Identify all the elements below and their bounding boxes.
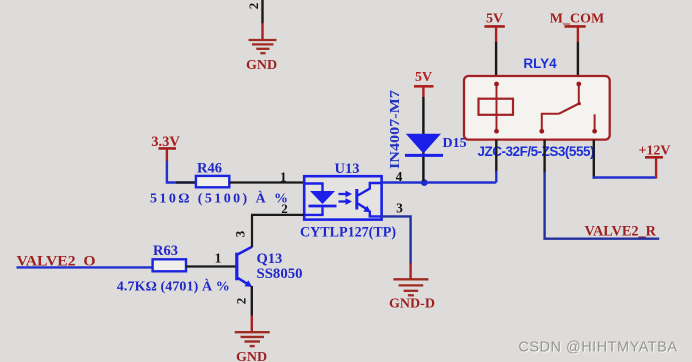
svg-text:2: 2 [246,3,261,10]
wire [495,140,497,172]
diode D15 [406,134,441,154]
power rail +12V [655,159,657,179]
svg-text:+12V: +12V [638,143,670,158]
svg-text:VALVE2_R: VALVE2_R [585,224,657,240]
U13 phototransistor [355,189,358,210]
wire [261,0,263,24]
svg-text:D15: D15 [443,136,467,151]
ground GND (bottom) [235,332,270,346]
svg-text:1: 1 [215,251,222,266]
relay switch [578,84,580,105]
svg-text:510Ω (5100) À %: 510Ω (5100) À % [150,190,288,207]
transistor Q13 [237,247,303,287]
svg-text:GND: GND [246,58,277,73]
relay RLY4 [464,56,610,159]
wire [17,266,154,268]
wire [252,215,304,248]
resistor R46 [196,176,229,187]
resistor R63 [153,259,186,271]
svg-text:IN4007-M7: IN4007-M7 [387,90,402,169]
svg-text:2: 2 [234,298,249,305]
svg-text:3: 3 [233,230,248,237]
wire [229,181,304,183]
wire [382,216,411,264]
ground GND (top) [249,40,277,53]
svg-text:R46: R46 [197,161,222,177]
wire [261,23,263,40]
svg-text:CYTLP127(TP): CYTLP127(TP) [300,225,396,241]
node junction D15/U13/relay [421,179,428,186]
U13 coupling arrows [339,193,347,195]
svg-text:3: 3 [396,201,403,216]
wire [422,97,424,181]
svg-text:2: 2 [281,201,288,216]
svg-text:5V: 5V [486,11,503,26]
svg-text:4.7KΩ (4701) À %: 4.7KΩ (4701) À % [117,277,230,294]
svg-text:5V: 5V [415,70,432,85]
svg-text:RLY4: RLY4 [523,56,557,71]
svg-text:GND: GND [236,350,267,362]
relay coil [479,99,514,115]
svg-text:1: 1 [280,169,287,184]
optocoupler U13 [300,161,396,241]
svg-text:U13: U13 [335,161,360,177]
wire [577,42,579,76]
wire [382,181,497,183]
svg-text:M_COM: M_COM [550,11,604,26]
svg-text:GND-D: GND-D [389,297,435,312]
wire [593,140,595,179]
wire [495,42,497,76]
U13 LED [305,184,323,192]
wire [543,140,545,173]
svg-text:JZC-32F/5-ZS3(555): JZC-32F/5-ZS3(555) [478,144,595,159]
svg-text:CSDN @HIHTMYATBA: CSDN @HIHTMYATBA [518,340,677,356]
wire [186,265,236,267]
ground GND-D [393,279,428,295]
wire [251,286,253,316]
svg-text:Q13: Q13 [257,251,283,267]
svg-text:R63: R63 [153,243,178,259]
wire [167,161,196,183]
svg-text:SS8050: SS8050 [257,266,303,282]
